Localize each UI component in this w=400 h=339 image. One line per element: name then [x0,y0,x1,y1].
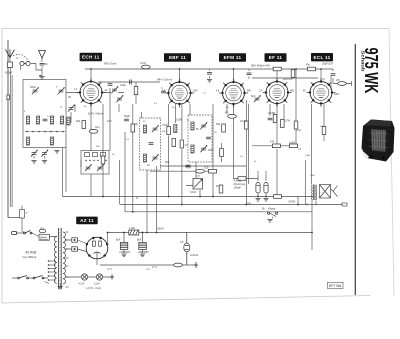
svg-text:(Pb): (Pb) [40,228,44,230]
svg-text:Lst.: Lst. [196,174,200,178]
svg-text:1M: 1M [216,184,220,188]
svg-text:26μF/25V: 26μF/25V [322,62,334,66]
svg-text:0,1μ: 0,1μ [246,201,252,205]
svg-text:Sicherung: Sicherung [40,238,49,241]
svg-text:AZ 11: AZ 11 [80,218,94,223]
svg-text:38V 460μA 4W: 38V 460μA 4W [251,64,270,68]
svg-text:0,1M: 0,1M [240,119,246,123]
svg-text:96V: 96V [247,91,252,93]
svg-text:a=6mA: a=6mA [190,253,199,257]
svg-text:4,8mΩ: 4,8mΩ [234,179,242,183]
svg-text:7μ: 7μ [322,77,325,81]
svg-text:Klangf.: Klangf. [268,207,276,211]
svg-text:Schaub: Schaub [361,51,366,72]
svg-text:0,5M: 0,5M [305,155,310,157]
svg-text:Osz.: Osz. [95,125,101,129]
svg-text:0,3A~: 0,3A~ [94,283,101,286]
svg-text:25k: 25k [165,160,170,164]
svg-text:420pF: 420pF [5,71,13,75]
svg-text:260V: 260V [157,227,164,231]
svg-text:110V: 110V [193,91,199,93]
svg-text:20pF: 20pF [30,85,36,89]
svg-text:7000: 7000 [310,175,316,177]
svg-text:117V 4,8mA: 117V 4,8mA [88,112,104,116]
svg-text:A: A [16,56,18,60]
svg-text:ECH 11: ECH 11 [82,55,100,60]
svg-text:-2V: -2V [104,90,108,92]
svg-text:0,1M: 0,1M [140,61,146,65]
svg-text:U~: U~ [147,267,151,271]
svg-text:C3: C3 [180,240,184,244]
svg-text:EFM 11: EFM 11 [224,55,242,60]
svg-text:0,5M: 0,5M [289,141,295,145]
svg-text:240V: 240V [289,199,296,203]
svg-text:190μF: 190μF [234,186,242,190]
svg-text:17 V: 17 V [107,268,112,271]
svg-text:ECL 11: ECL 11 [313,55,330,60]
svg-text:60 Watt: 60 Watt [26,251,37,255]
svg-text:(~6,3V - 0,1A): (~6,3V - 0,1A) [86,287,101,290]
svg-text:17 V: 17 V [152,266,157,269]
svg-text:52pF: 52pF [124,114,130,118]
svg-text:100: 100 [107,119,112,123]
svg-text:0,1M: 0,1M [190,190,196,194]
svg-text:0,15M: 0,15M [268,111,275,115]
svg-text:5pF: 5pF [251,94,256,98]
svg-text:0,7M: 0,7M [284,119,290,123]
svg-text:DPT 964: DPT 964 [329,284,342,288]
svg-text:50k: 50k [76,119,81,123]
svg-text:90V 5mA: 90V 5mA [104,62,116,66]
svg-text:22pF: 22pF [120,83,126,87]
svg-text:8μF: 8μF [137,238,142,242]
svg-text:6V: 6V [303,91,306,93]
svg-text:0,3M: 0,3M [296,130,301,132]
svg-text:100: 100 [204,166,209,170]
svg-text:+450/390V: +450/390V [119,252,131,254]
svg-text:EF 11: EF 11 [269,55,283,60]
svg-text:Gen 380mA: Gen 380mA [23,255,37,259]
svg-text:~6,3V: ~6,3V [78,283,85,286]
svg-text:235V: 235V [334,94,340,96]
svg-text:94V 5,6mA: 94V 5,6mA [157,78,172,82]
svg-text:8μF: 8μF [116,238,121,242]
svg-text:0,1M: 0,1M [162,123,168,127]
svg-text:4,7k: 4,7k [186,166,192,170]
svg-text:1,46k: 1,46k [129,227,136,230]
svg-text:0,3M: 0,3M [176,118,182,122]
svg-text:EBF 11: EBF 11 [169,55,186,60]
svg-text:100 mA: 100 mA [283,77,293,81]
svg-text:88V: 88V [290,91,295,93]
svg-text:Abstimmg.: Abstimmg. [234,182,247,186]
svg-text:47k: 47k [270,140,275,144]
svg-text:+450/390V: +450/390V [138,252,150,254]
svg-text:Pw: Pw [306,63,310,67]
svg-text:50k: 50k [216,122,221,126]
